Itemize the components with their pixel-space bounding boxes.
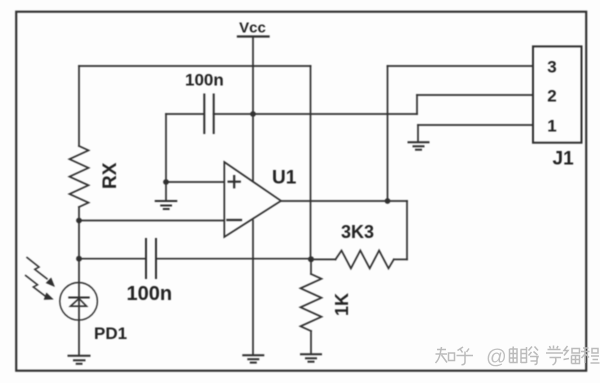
svg-text:Vcc: Vcc bbox=[239, 20, 266, 37]
ground below 1K bbox=[301, 354, 321, 361]
resistor 3K3 bbox=[311, 251, 407, 269]
wire PD1 bottom lead bbox=[78, 320, 80, 356]
junction dot non-inverting input node bbox=[163, 179, 169, 185]
resistor 1K bbox=[301, 274, 322, 331]
watermark (vector approximation of 知乎 @雕爷学编程) bbox=[436, 346, 600, 369]
power symbol Vcc bbox=[238, 35, 269, 37]
wire J1 pin1 horizontal bbox=[418, 124, 533, 126]
wire top horizontal from RX top to right column bbox=[79, 65, 311, 67]
wire 1K top lead bbox=[310, 259, 312, 274]
wire J1 pin2 horizontal bbox=[417, 94, 533, 96]
capacitor 100n (bottom) bbox=[146, 239, 156, 278]
junction dot Vcc / cap net bbox=[250, 111, 256, 117]
wire non-inverting input bbox=[166, 181, 224, 183]
svg-text:U1: U1 bbox=[272, 168, 297, 189]
connector J1 bbox=[533, 46, 582, 142]
ground below op-amp bbox=[243, 355, 263, 362]
ground at J1 pin1 bbox=[409, 142, 429, 149]
wire bottom cap right lead to node A bbox=[156, 258, 311, 260]
svg-text:100n: 100n bbox=[127, 283, 173, 305]
junction dot PD1 node bbox=[76, 256, 82, 262]
junction dot inverting input node bbox=[76, 218, 82, 224]
svg-text:1: 1 bbox=[547, 117, 556, 136]
svg-text:3K3: 3K3 bbox=[341, 222, 374, 242]
wire down to PD1 node bbox=[78, 221, 80, 259]
ground below PD1 bbox=[69, 356, 90, 364]
wire left column cap to ground bbox=[165, 114, 167, 201]
wire 1K bottom lead bbox=[310, 331, 312, 354]
wire output down to 3K3 right lead bbox=[406, 201, 408, 259]
resistor RX bbox=[70, 146, 89, 207]
wire bottom cap left lead bbox=[79, 258, 146, 260]
wire top cap right lead along Vcc net bbox=[214, 113, 417, 115]
wire inverting input bbox=[79, 220, 224, 222]
svg-text:J1: J1 bbox=[553, 149, 575, 170]
wire Vcc rail down to op-amp V+ pin bbox=[252, 37, 254, 181]
wire op-amp V- pin to ground bbox=[252, 221, 254, 356]
svg-text:100n: 100n bbox=[185, 71, 224, 90]
wire op-amp output bbox=[281, 200, 407, 202]
wire right column from top wire down to node A bbox=[310, 66, 312, 259]
svg-text:@: @ bbox=[486, 346, 507, 369]
capacitor 100n (top) bbox=[204, 95, 213, 134]
svg-text:PD1: PD1 bbox=[94, 324, 127, 343]
junction dot output to J1 pin 3 bbox=[385, 198, 391, 204]
wire J1 pin3 horizontal bbox=[388, 65, 534, 67]
wire RX bottom lead to inverting-input node bbox=[78, 207, 80, 221]
op-amp U1 bbox=[224, 162, 281, 237]
wire J1 pin2 riser bbox=[416, 95, 418, 114]
svg-text:RX: RX bbox=[100, 162, 121, 189]
svg-text:1K: 1K bbox=[332, 293, 352, 316]
junction dot node A bbox=[308, 256, 314, 262]
wire RX top lead bbox=[78, 66, 80, 146]
svg-text:2: 2 bbox=[547, 87, 556, 106]
wire top cap ground-side lead bbox=[166, 113, 204, 115]
wire J1 pin1 to ground bbox=[417, 125, 419, 142]
ground at non-inverting input bbox=[156, 201, 177, 209]
wire J1 pin3 vertical from output bbox=[387, 66, 389, 201]
photodiode PD1 bbox=[26, 258, 98, 321]
wire PD1 top lead bbox=[78, 259, 80, 283]
svg-text:3: 3 bbox=[547, 58, 556, 77]
